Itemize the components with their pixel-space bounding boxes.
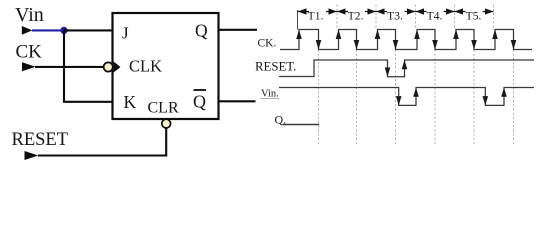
svg-text:CK.: CK. [258, 38, 277, 50]
timing diagram: lower dashed gridlines at CK falling edges [319, 50, 514, 147]
interval marker T4 [416, 8, 455, 14]
CK rising edge arrows [296, 30, 498, 40]
CLK bubble [104, 62, 113, 71]
svg-text:RESET.: RESET. [255, 60, 296, 74]
wire CK to CLK bubble [35, 66, 104, 68]
flip-flop U1 body [113, 13, 219, 119]
input Vin arrow [22, 26, 33, 35]
wire Q output [219, 29, 258, 31]
svg-text:Q: Q [195, 21, 208, 41]
wire node A down to K rail [64, 30, 113, 101]
RESET rising edge arrow [402, 60, 408, 69]
waveform Vin [279, 88, 534, 106]
node A junction dot [60, 27, 67, 34]
svg-text:CK: CK [16, 42, 43, 63]
CK falling edge arrows [316, 40, 517, 50]
wire Q-bar output [219, 100, 256, 102]
svg-text:CLR: CLR [148, 100, 179, 117]
wire Vin arrow to node A (blue) [32, 29, 64, 31]
waveform CK [280, 30, 532, 50]
RESET falling edge arrow [385, 68, 391, 77]
clock edge indicator [114, 62, 121, 73]
Vin label underline [260, 98, 279, 100]
svg-text:RESET: RESET [12, 130, 69, 150]
svg-text:T1.: T1. [308, 11, 324, 23]
CLR bubble [162, 119, 171, 128]
input RESET arrow [25, 151, 39, 160]
wire node A to J pin [64, 29, 113, 31]
input CK arrow [22, 62, 36, 71]
interval marker T5 [455, 8, 494, 14]
waveform RESET [279, 60, 534, 77]
svg-text:T3.: T3. [387, 11, 403, 23]
Vin falling edge arrows [396, 96, 488, 105]
svg-text:T5.: T5. [466, 11, 482, 23]
svg-text:Vin: Vin [15, 4, 44, 26]
interval marker T2 [337, 8, 376, 14]
svg-text:J: J [122, 24, 129, 43]
svg-text:Q: Q [193, 92, 206, 112]
svg-text:K: K [124, 92, 137, 112]
T1 left boundary tick [297, 10, 299, 30]
waveform Q (initial low only) [283, 124, 320, 126]
interval marker T3 [376, 8, 416, 14]
svg-text:Vin.: Vin. [261, 89, 279, 100]
svg-text:T4.: T4. [427, 11, 443, 23]
svg-text:T2.: T2. [348, 11, 364, 23]
timing diagram: upper dashed gridlines at CK rising edges [337, 5, 494, 30]
pin label Q-bar [193, 90, 206, 112]
wire RESET to CLR bubble [38, 128, 166, 156]
svg-text:CLK: CLK [129, 57, 162, 76]
Vin rising edge arrows [413, 88, 507, 97]
interval marker T1 [298, 8, 338, 14]
